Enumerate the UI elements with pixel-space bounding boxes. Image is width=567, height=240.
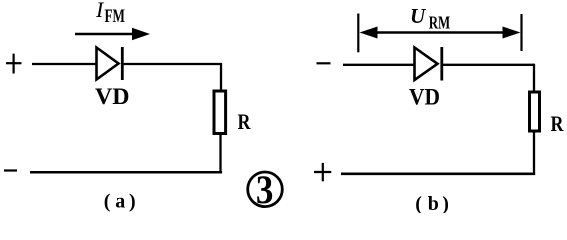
svg-text:FM: FM xyxy=(105,6,126,27)
svg-text:b: b xyxy=(428,193,439,213)
svg-text:): ) xyxy=(129,190,136,212)
svg-text:R: R xyxy=(551,111,565,136)
svg-text:VD: VD xyxy=(95,84,130,109)
svg-text:VD: VD xyxy=(409,85,440,110)
svg-text:): ) xyxy=(442,193,449,213)
svg-text:(: ( xyxy=(415,193,422,213)
svg-text:RM: RM xyxy=(429,13,451,33)
svg-text:(: ( xyxy=(104,190,111,212)
svg-text:a: a xyxy=(115,190,125,212)
svg-text:R: R xyxy=(238,109,252,134)
svg-text:3: 3 xyxy=(256,167,274,212)
svg-text:U: U xyxy=(410,4,427,28)
